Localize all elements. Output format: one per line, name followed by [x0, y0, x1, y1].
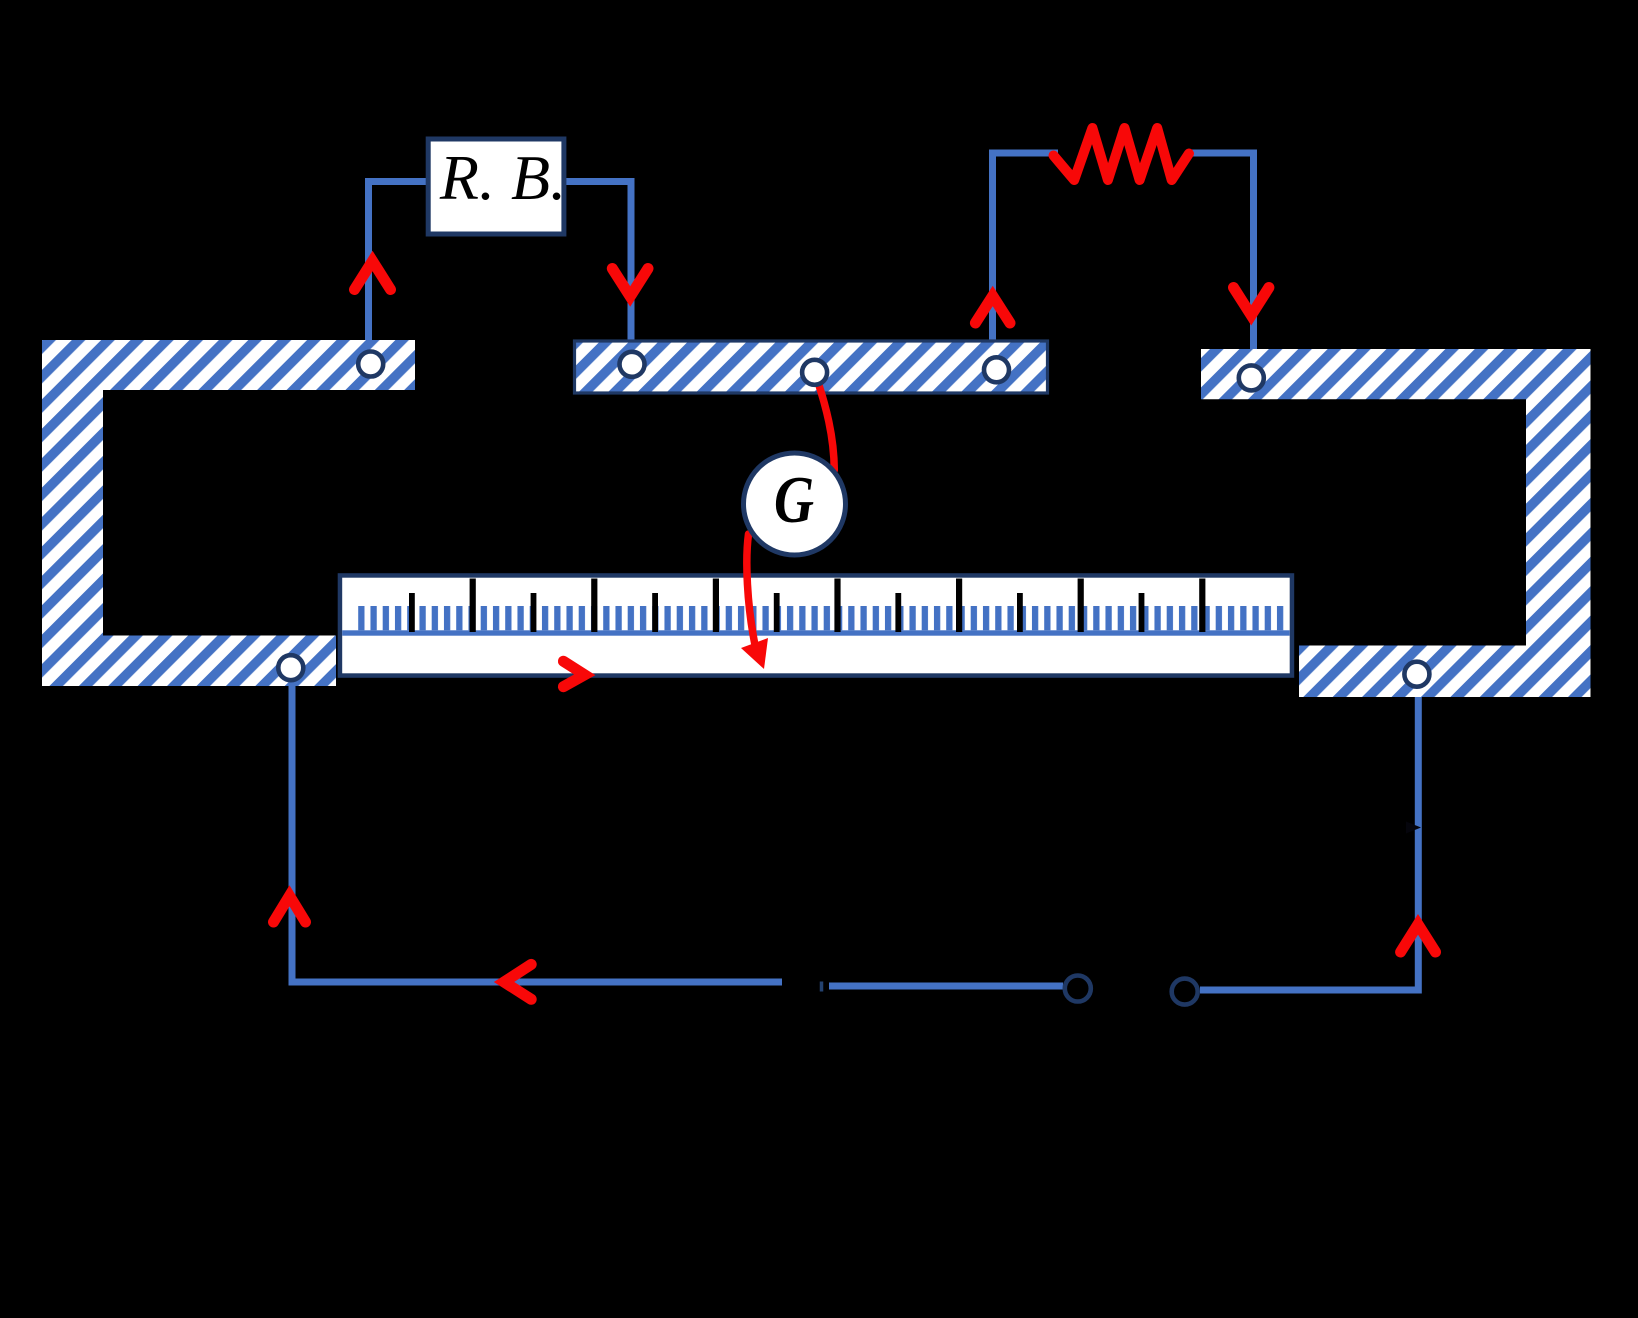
current arrow left (bottom wire)	[504, 964, 531, 999]
binding post D on middle strip	[984, 357, 1009, 382]
black arrow notch on right wire	[1406, 822, 1421, 834]
copper strip left (L-gap strip)	[42, 340, 415, 686]
wire from resistor S down to right strip post E	[1188, 153, 1254, 355]
wire from key terminal up to bottom-right post G2	[1200, 690, 1418, 990]
binding post C (galvanometer tap)	[802, 360, 827, 385]
binding post A on left strip	[358, 352, 383, 377]
current arrow up (bottom right wire)	[1401, 924, 1436, 952]
copper strip middle AB	[575, 341, 1048, 393]
jockey arrowhead	[741, 638, 768, 669]
current arrow right (on bridge wire)	[563, 661, 584, 687]
scale major ticks	[470, 579, 1206, 633]
svg-text:R. B.: R. B.	[439, 142, 566, 213]
wire from R.B. down to middle strip post B	[565, 182, 631, 346]
jockey lead from galvanometer to wire	[747, 534, 755, 645]
resistor S (unknown resistance, red zigzag)	[1054, 128, 1190, 180]
current arrow up (left of R.B.)	[355, 261, 391, 290]
key terminal 2	[1172, 979, 1198, 1005]
key terminal 1	[1065, 976, 1091, 1002]
jockey lead from post C to galvanometer	[816, 376, 834, 470]
binding post G2 bottom right	[1404, 662, 1429, 687]
wire from middle strip post D up to resistor S	[993, 153, 1059, 345]
wire from battery to key terminal	[829, 983, 1063, 990]
metre scale (ruler)	[338, 573, 1294, 678]
binding post B on middle strip	[620, 352, 645, 377]
current arrow up (bottom left wire)	[274, 896, 306, 922]
current arrow down (right of R.B.)	[612, 269, 648, 297]
galvanometer G	[744, 453, 846, 555]
copper strip right	[1201, 349, 1591, 697]
svg-text:G: G	[774, 463, 814, 537]
battery cell plate	[820, 982, 824, 992]
scale medium ticks	[409, 593, 1144, 632]
wire from left strip post A up to R.B.	[369, 182, 428, 346]
resistance box R.B.	[428, 139, 566, 234]
binding post E on right strip	[1239, 365, 1264, 390]
wire from bottom-left post F down and right to battery	[292, 675, 782, 982]
current arrow up (left of resistor S)	[975, 296, 1010, 323]
binding post F bottom left	[278, 655, 303, 680]
current arrow down (right of resistor S)	[1234, 288, 1269, 316]
